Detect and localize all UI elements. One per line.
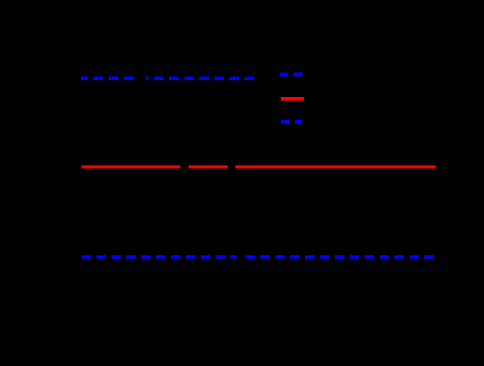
black occluder over bottom blue line bbox=[237, 253, 241, 261]
red solid line segment 3 bbox=[235, 165, 237, 168]
red solid line segment 2 bbox=[189, 165, 228, 168]
legend sample 2: red solid bbox=[281, 97, 304, 101]
blue dashed line (top series) bbox=[81, 77, 254, 81]
blue dashed line (bottom series) bbox=[82, 255, 434, 259]
red solid line segment 1 bbox=[82, 165, 181, 168]
legend sample 1: blue dashes bbox=[280, 73, 288, 77]
black occluder over top blue line bbox=[138, 74, 146, 83]
legend sample 3: blue dashes bbox=[281, 120, 290, 124]
